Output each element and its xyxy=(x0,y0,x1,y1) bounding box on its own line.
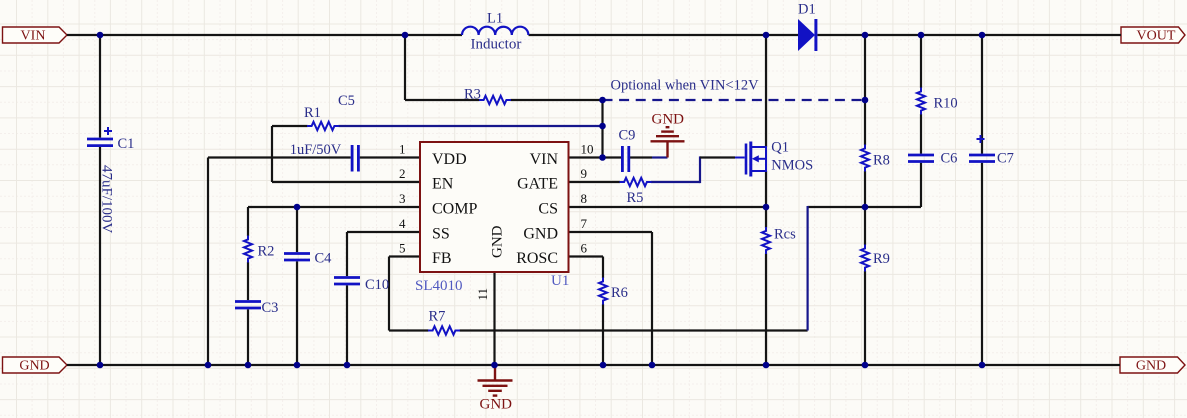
label R2 xyxy=(258,243,275,259)
svg-text:1uF/50V: 1uF/50V xyxy=(290,142,342,158)
label R1 xyxy=(304,105,321,121)
label SL4010 xyxy=(415,278,463,294)
svg-text:SS: SS xyxy=(432,225,450,242)
wire Q1 source column xyxy=(765,171,767,207)
svg-text:COMP: COMP xyxy=(432,200,477,217)
power GND bottom (earth) xyxy=(478,365,513,396)
node junction 15 xyxy=(205,362,212,369)
wire top rail mid (L1 to D1) xyxy=(529,34,799,36)
label C10 xyxy=(365,277,389,293)
svg-text:C9: C9 xyxy=(619,128,636,144)
label D1 xyxy=(798,2,816,18)
svg-text:2: 2 xyxy=(399,166,406,181)
svg-text:1: 1 xyxy=(399,142,406,157)
svg-text:R5: R5 xyxy=(627,190,644,206)
wire C1 column xyxy=(99,35,101,365)
svg-text:Optional when VIN<12V: Optional when VIN<12V xyxy=(611,77,760,93)
wire Q1 drain column xyxy=(765,35,767,147)
pin 1 VDD xyxy=(399,142,467,168)
power GND top (inverted earth) xyxy=(651,127,685,157)
pin 8 CS xyxy=(538,191,587,217)
svg-text:R3: R3 xyxy=(464,87,481,103)
svg-text:VOUT: VOUT xyxy=(1137,29,1176,44)
wire R10 column xyxy=(920,35,922,154)
port GND bottom-left xyxy=(3,357,68,374)
wire SS row (pin 4) xyxy=(347,231,420,233)
svg-text:C7: C7 xyxy=(997,151,1014,167)
svg-text:GND: GND xyxy=(480,397,513,413)
wire CS row (pin 8) xyxy=(569,206,767,208)
svg-text:R6: R6 xyxy=(611,285,628,301)
label C9 xyxy=(619,128,636,144)
label C6 xyxy=(941,151,958,167)
wire optional dashed link xyxy=(603,99,866,101)
label C3 xyxy=(262,300,279,316)
node junction 13 xyxy=(862,204,869,211)
svg-text:5: 5 xyxy=(399,241,406,256)
resistor R2 xyxy=(244,236,252,263)
label GND bottom xyxy=(480,397,513,413)
label R9 xyxy=(873,251,890,267)
svg-text:R10: R10 xyxy=(934,96,958,112)
wire feedback vertical x=808 xyxy=(806,206,808,331)
node junction 20 xyxy=(600,362,607,369)
wire VIN-node column x=602 xyxy=(601,100,603,158)
svg-text:ROSC: ROSC xyxy=(516,250,558,267)
node junction 11 xyxy=(294,204,301,211)
pin 10 VIN xyxy=(530,142,594,168)
pin 5 FB xyxy=(399,241,452,267)
svg-text:U1: U1 xyxy=(551,273,569,289)
node junction 9 xyxy=(599,123,606,130)
svg-text:Q1: Q1 xyxy=(771,140,789,156)
svg-text:GND: GND xyxy=(19,359,49,374)
svg-text:VIN: VIN xyxy=(21,29,46,44)
label U1 xyxy=(551,273,569,289)
wire gate lead-in row xyxy=(700,156,735,158)
node junction 10 xyxy=(599,154,606,161)
node junction 12 xyxy=(763,204,770,211)
wire C9 to GND symbol xyxy=(630,156,652,158)
label R3 xyxy=(464,87,481,103)
wire feedback elbow to divider and C6 xyxy=(808,163,921,207)
wire R7 row / feedback run xyxy=(389,329,808,331)
node junction 19 xyxy=(491,362,498,369)
resistor R7 xyxy=(428,326,460,334)
wire EN riser xyxy=(271,126,273,182)
node junction 8 xyxy=(862,97,869,104)
resistor Rcs xyxy=(762,227,770,254)
label R6 xyxy=(611,285,628,301)
svg-text:3: 3 xyxy=(399,191,406,206)
capacitor C3 xyxy=(235,302,261,309)
svg-text:GATE: GATE xyxy=(517,175,558,192)
svg-text:10: 10 xyxy=(581,142,594,157)
resistor R3 xyxy=(479,96,511,104)
svg-text:8: 8 xyxy=(581,191,588,206)
resistor R10 xyxy=(917,88,925,115)
wire top rail right (D1 to VOUT) xyxy=(818,34,1122,36)
label R5 xyxy=(627,190,644,206)
wire GATE row pin 9 to R5 xyxy=(569,181,621,183)
svg-text:VDD: VDD xyxy=(432,151,467,168)
port GND bottom-right xyxy=(1120,357,1185,374)
wire R1 row right to VIN node xyxy=(339,125,603,127)
node junction 17 xyxy=(294,362,301,369)
pin 2 EN xyxy=(399,166,454,192)
svg-text:7: 7 xyxy=(581,216,588,231)
wire FB riser down xyxy=(388,257,390,331)
svg-text:C10: C10 xyxy=(365,277,389,293)
label L1 xyxy=(487,11,503,27)
capacitor C6 xyxy=(908,155,934,162)
label R10 xyxy=(934,96,958,112)
wire R6 column xyxy=(602,257,604,366)
node junction 5 xyxy=(918,32,925,39)
resistor R1 xyxy=(307,122,339,130)
note Optional when VIN lt 12V xyxy=(611,77,760,93)
wire gate riser xyxy=(699,156,701,183)
pin 11 GND (bottom) xyxy=(475,225,506,300)
label Inductor xyxy=(471,36,522,52)
svg-text:R2: R2 xyxy=(258,243,275,259)
node junction 21 xyxy=(649,362,656,369)
wire EN row (pin 2) xyxy=(272,181,420,183)
pin 6 ROSC xyxy=(516,241,587,267)
svg-text:C4: C4 xyxy=(315,251,333,267)
wire R9 column xyxy=(864,207,866,365)
resistor R9 xyxy=(861,245,869,272)
transistor Q1 NMOS xyxy=(735,142,766,177)
node junction 18 xyxy=(344,362,351,369)
label C5 xyxy=(338,93,355,109)
svg-text:R8: R8 xyxy=(873,153,890,169)
port VOUT xyxy=(1121,27,1185,44)
wire C4 column xyxy=(296,207,298,365)
wire C10 column xyxy=(346,232,348,365)
wire pin 7 column xyxy=(651,232,653,365)
label Q1 xyxy=(771,140,789,156)
svg-text:SL4010: SL4010 xyxy=(415,278,463,294)
svg-text:GND: GND xyxy=(523,225,558,242)
wire R5 to gate riser xyxy=(651,181,700,183)
node junction 3 xyxy=(763,32,770,39)
diode D1 xyxy=(798,19,816,51)
capacitor C9 xyxy=(622,146,628,172)
label GND top xyxy=(652,112,685,128)
svg-text:C1: C1 xyxy=(118,136,135,152)
wire R3 riser from top rail xyxy=(404,35,406,100)
svg-text:C5: C5 xyxy=(338,93,355,109)
node junction 4 xyxy=(862,32,869,39)
svg-text:NMOS: NMOS xyxy=(771,158,813,174)
wire R3 row xyxy=(405,99,603,101)
inductor L1 xyxy=(462,27,528,35)
pin 4 SS xyxy=(399,216,450,242)
resistor R6 xyxy=(599,278,607,305)
node junction 14 xyxy=(97,362,104,369)
op-amp U1 SL4010 body xyxy=(420,142,569,272)
capacitor C4 xyxy=(284,254,310,261)
svg-text:6: 6 xyxy=(581,241,588,256)
svg-text:C3: C3 xyxy=(262,300,279,316)
capacitor C7 xyxy=(969,135,995,162)
wire R1 row left xyxy=(272,125,308,127)
node junction 7 xyxy=(599,97,606,104)
node junction 2 xyxy=(402,32,409,39)
svg-text:CS: CS xyxy=(538,200,558,217)
wire C5/VDD branch column x=208 xyxy=(207,158,209,366)
pin 7 GND xyxy=(523,216,587,242)
wire COMP row (pin 3) xyxy=(248,206,420,208)
node junction 23 xyxy=(862,362,869,369)
svg-text:47uF/100V: 47uF/100V xyxy=(99,165,115,234)
svg-text:Inductor: Inductor xyxy=(471,36,522,52)
resistor R5 xyxy=(620,178,652,186)
svg-text:GND: GND xyxy=(490,225,506,258)
wire ROSC row (pin 6) xyxy=(569,255,604,257)
svg-text:11: 11 xyxy=(475,288,490,301)
svg-text:VIN: VIN xyxy=(530,151,559,168)
label R7 xyxy=(429,308,446,324)
value 47uF/100V xyxy=(99,165,115,234)
resistor R8 xyxy=(861,145,869,172)
label C7 xyxy=(997,151,1014,167)
node junction 22 xyxy=(763,362,770,369)
wire FB row (pin 5) xyxy=(389,255,420,257)
svg-text:FB: FB xyxy=(432,250,452,267)
value 1uF/50V xyxy=(290,142,342,158)
label Rcs xyxy=(774,227,796,243)
wire top rail left (VIN to L1) xyxy=(67,34,462,36)
svg-text:R1: R1 xyxy=(304,105,321,121)
label R8 xyxy=(873,153,890,169)
svg-text:L1: L1 xyxy=(487,11,503,27)
capacitor C10 xyxy=(334,278,360,285)
wire R8 column xyxy=(864,35,866,207)
port VIN xyxy=(3,27,68,44)
capacitor C1 xyxy=(87,127,113,146)
wire GND row (pin 7) xyxy=(569,231,653,233)
svg-text:9: 9 xyxy=(581,166,588,181)
pin 3 COMP xyxy=(399,191,477,217)
wire VDD row (pin 1) with C5 gap xyxy=(208,156,420,158)
svg-text:C6: C6 xyxy=(941,151,958,167)
wire pin 10 stub to C9 xyxy=(569,156,622,158)
capacitor C5 xyxy=(352,145,358,172)
label NMOS xyxy=(771,158,813,174)
wire C7 column xyxy=(981,35,983,365)
svg-text:GND: GND xyxy=(1136,359,1166,374)
svg-text:Rcs: Rcs xyxy=(774,227,796,243)
label C4 xyxy=(315,251,333,267)
svg-text:GND: GND xyxy=(652,112,685,128)
wire R2-C3 column xyxy=(247,207,249,365)
pin 9 GATE xyxy=(517,166,587,192)
label C1 xyxy=(118,136,135,152)
node junction 6 xyxy=(979,32,986,39)
svg-text:R7: R7 xyxy=(429,308,446,324)
svg-text:R9: R9 xyxy=(873,251,890,267)
svg-text:4: 4 xyxy=(399,216,406,231)
node junction 1 xyxy=(97,32,104,39)
svg-text:EN: EN xyxy=(432,175,454,192)
wire Rcs column xyxy=(765,207,767,365)
svg-text:D1: D1 xyxy=(798,2,816,18)
wire C9-GND navy segment xyxy=(652,156,668,158)
wire bottom GND rail xyxy=(67,364,1120,366)
node junction 24 xyxy=(979,362,986,369)
wire IC GND pin 11 column xyxy=(493,272,495,365)
node junction 16 xyxy=(245,362,252,369)
